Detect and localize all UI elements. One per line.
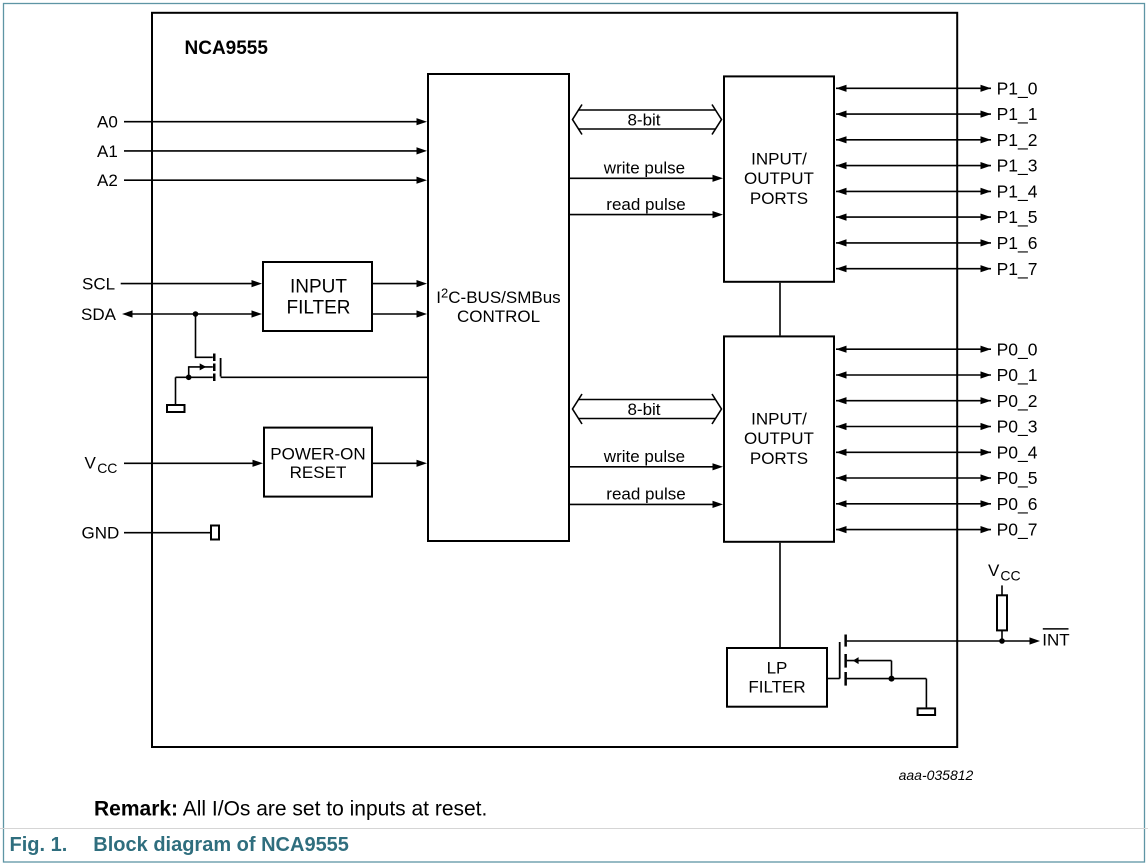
pin label GND xyxy=(82,524,120,543)
pin label A0 xyxy=(97,113,118,132)
GND pin pad xyxy=(211,526,219,540)
pin label P1_2 xyxy=(997,130,1038,151)
svg-text:P0_6: P0_6 xyxy=(997,494,1038,515)
svg-text:P0_1: P0_1 xyxy=(997,365,1038,386)
wire write pulse (port 0) xyxy=(570,463,723,470)
svg-text:P1_2: P1_2 xyxy=(997,130,1038,151)
svg-text:write pulse: write pulse xyxy=(603,447,685,466)
pin label INT xyxy=(1042,629,1069,650)
svg-text:FILTER: FILTER xyxy=(286,298,350,319)
svg-text:A0: A0 xyxy=(97,113,118,132)
wire Q2 source xyxy=(847,679,927,708)
substrate pad Q1 xyxy=(167,405,185,412)
svg-text:P0_5: P0_5 xyxy=(997,468,1038,489)
wire SDA to Q1 drain xyxy=(196,314,213,357)
wire filter to control (SDA) xyxy=(373,310,427,317)
pin label P1_7 xyxy=(997,259,1038,280)
block I2C-BUS/SMBus CONTROL xyxy=(428,74,569,541)
transistor Q2 gate xyxy=(839,642,841,679)
pin label P0_0 xyxy=(997,339,1038,360)
svg-text:INPUT/: INPUT/ xyxy=(751,150,807,169)
caption rule xyxy=(0,828,1148,830)
block POWER-ON RESET xyxy=(264,428,372,497)
transistor Q1 gate xyxy=(220,358,222,377)
label write pulse (port 1) xyxy=(603,158,685,177)
svg-text:8-bit: 8-bit xyxy=(627,110,660,129)
wire P0 to LP filter xyxy=(779,543,781,648)
label LP FILTER xyxy=(748,658,805,696)
block INPUT FILTER xyxy=(263,262,372,331)
label INPUT/OUTPUT PORTS (P0) xyxy=(744,410,814,469)
label INPUT/OUTPUT PORTS (P1) xyxy=(744,150,814,209)
svg-text:OUTPUT: OUTPUT xyxy=(744,169,814,188)
svg-text:SCL: SCL xyxy=(82,275,115,294)
svg-text:FILTER: FILTER xyxy=(748,677,805,696)
svg-text:RESET: RESET xyxy=(290,463,347,482)
svg-text:write pulse: write pulse xyxy=(603,158,685,177)
label INPUT FILTER xyxy=(286,277,350,319)
svg-text:Block diagram of NCA9555: Block diagram of NCA9555 xyxy=(93,834,349,856)
svg-text:A1: A1 xyxy=(97,142,118,161)
svg-text:OUTPUT: OUTPUT xyxy=(744,429,814,448)
note aaa-035812 xyxy=(899,767,974,783)
svg-text:V: V xyxy=(988,561,1000,580)
pin label SCL xyxy=(82,275,115,294)
svg-text:P1_5: P1_5 xyxy=(997,207,1038,228)
pin label P0_5 xyxy=(997,468,1038,489)
pin label P1_0 xyxy=(997,78,1038,99)
wire P1_3 xyxy=(836,162,991,169)
chip outline NCA9555 xyxy=(152,13,957,747)
wire VCC xyxy=(124,460,263,467)
svg-text:8-bit: 8-bit xyxy=(627,400,660,419)
wire POR to control xyxy=(373,460,427,467)
bus arrow 8-bit (port 0) xyxy=(573,394,722,424)
pin label P0_3 xyxy=(997,417,1038,438)
label read pulse (port 1) xyxy=(606,195,685,214)
svg-text:read pulse: read pulse xyxy=(606,195,685,214)
svg-text:V: V xyxy=(85,453,97,472)
svg-text:P0_0: P0_0 xyxy=(997,339,1038,360)
pin label P0_2 xyxy=(997,391,1038,412)
substrate pad Q2 xyxy=(918,708,936,715)
transistor Q1 channel xyxy=(213,354,216,382)
svg-text:CC: CC xyxy=(97,460,117,476)
junction Q1 source-body xyxy=(186,375,192,381)
junction SDA node xyxy=(193,311,199,317)
block INPUT/OUTPUT PORTS (P0) xyxy=(724,336,834,541)
label write pulse (port 0) xyxy=(603,447,685,466)
block INPUT/OUTPUT PORTS (P1) xyxy=(724,76,834,281)
wire resistor to INT node xyxy=(1001,631,1003,642)
wire P1_4 xyxy=(836,188,991,195)
pin label A2 xyxy=(97,171,118,190)
svg-text:P1_7: P1_7 xyxy=(997,259,1038,280)
wire P1_2 xyxy=(836,136,991,143)
wire filter to control (SCL) xyxy=(373,280,427,287)
svg-text:CC: CC xyxy=(1000,567,1020,583)
wire P1_1 xyxy=(836,111,991,118)
svg-text:A2: A2 xyxy=(97,171,118,190)
svg-text:P1_0: P1_0 xyxy=(997,78,1038,99)
svg-text:SDA: SDA xyxy=(81,305,117,324)
resistor R1 xyxy=(997,595,1007,630)
pin label P1_6 xyxy=(997,233,1038,254)
pin label P0_1 xyxy=(997,365,1038,386)
wire P1 to P0 xyxy=(779,283,781,336)
svg-text:P0_7: P0_7 xyxy=(997,520,1038,541)
label NCA9555 xyxy=(185,38,269,59)
pin label P1_1 xyxy=(997,104,1038,125)
svg-text:P0_2: P0_2 xyxy=(997,391,1038,412)
wire P0_7 xyxy=(836,526,991,533)
label VCC (pull-up) xyxy=(988,561,1021,584)
junction INT node xyxy=(999,638,1005,644)
wire LP filter to Q2 gate xyxy=(827,678,840,680)
wire P1_0 xyxy=(836,85,991,92)
svg-text:POWER-ON: POWER-ON xyxy=(270,444,365,463)
svg-text:CONTROL: CONTROL xyxy=(457,307,540,326)
wire read pulse (port 0) xyxy=(570,501,723,508)
label read pulse (port 0) xyxy=(606,484,685,503)
wire Q1 gate to control xyxy=(221,376,427,378)
svg-text:read pulse: read pulse xyxy=(606,484,685,503)
label I2C-BUS/SMBus CONTROL xyxy=(436,286,560,326)
wire Q2 drain / INT net xyxy=(847,637,1040,644)
wire read pulse (port 1) xyxy=(570,211,723,218)
bus arrow 8-bit (port 1) xyxy=(573,105,722,135)
figure caption xyxy=(10,834,349,856)
svg-text:LP: LP xyxy=(767,658,788,677)
block LP FILTER xyxy=(727,648,827,707)
wire GND xyxy=(124,532,210,534)
pin label VCC xyxy=(85,453,118,475)
svg-text:Fig. 1.: Fig. 1. xyxy=(10,834,68,856)
wire P1_7 xyxy=(836,265,991,272)
wire SCL xyxy=(121,280,262,287)
pin label P1_5 xyxy=(997,207,1038,228)
svg-text:P1_1: P1_1 xyxy=(997,104,1038,125)
pin label P1_3 xyxy=(997,156,1038,177)
wire P0_4 xyxy=(836,449,991,456)
transistor Q1 body arrow xyxy=(189,363,213,377)
wire P0_5 xyxy=(836,474,991,481)
wire P0_3 xyxy=(836,423,991,430)
svg-text:Remark: All I/Os are set to in: Remark: All I/Os are set to inputs at re… xyxy=(94,797,487,820)
svg-text:INPUT/: INPUT/ xyxy=(751,410,807,429)
transistor Q2 channel xyxy=(844,635,847,686)
svg-text:P1_3: P1_3 xyxy=(997,156,1038,177)
wire P0_0 xyxy=(836,346,991,353)
svg-text:P1_6: P1_6 xyxy=(997,233,1038,254)
junction Q2 source-body xyxy=(889,676,895,682)
remark text xyxy=(94,797,487,820)
wire P0_2 xyxy=(836,397,991,404)
wire VCC to resistor xyxy=(1001,585,1003,595)
svg-text:aaa-035812: aaa-035812 xyxy=(899,767,974,783)
svg-text:PORTS: PORTS xyxy=(750,449,808,468)
svg-text:PORTS: PORTS xyxy=(750,189,808,208)
pin label P0_4 xyxy=(997,442,1038,463)
pin label P0_7 xyxy=(997,520,1038,541)
pin label A1 xyxy=(97,142,118,161)
wire Q1 source xyxy=(176,377,213,404)
svg-text:I2C-BUS/SMBus: I2C-BUS/SMBus xyxy=(436,286,560,307)
wire A0 xyxy=(124,118,427,125)
pin label P1_4 xyxy=(997,182,1038,203)
svg-text:INPUT: INPUT xyxy=(290,277,347,298)
pin label SDA xyxy=(81,305,117,324)
wire write pulse (port 1) xyxy=(570,175,723,182)
wire A2 xyxy=(124,177,427,184)
svg-text:P0_4: P0_4 xyxy=(997,442,1038,463)
wire P0_6 xyxy=(836,500,991,507)
svg-text:INT: INT xyxy=(1042,631,1069,650)
svg-text:P0_3: P0_3 xyxy=(997,417,1038,438)
wire P1_5 xyxy=(836,214,991,221)
wire A1 xyxy=(124,147,427,154)
svg-text:P1_4: P1_4 xyxy=(997,182,1038,203)
svg-text:GND: GND xyxy=(82,524,120,543)
pin label P0_6 xyxy=(997,494,1038,515)
wire P1_6 xyxy=(836,239,991,246)
label POWER-ON RESET xyxy=(270,444,365,482)
svg-text:NCA9555: NCA9555 xyxy=(185,38,269,59)
wire P0_1 xyxy=(836,371,991,378)
transistor Q2 body arrow xyxy=(847,657,892,679)
wire SDA xyxy=(122,310,262,317)
